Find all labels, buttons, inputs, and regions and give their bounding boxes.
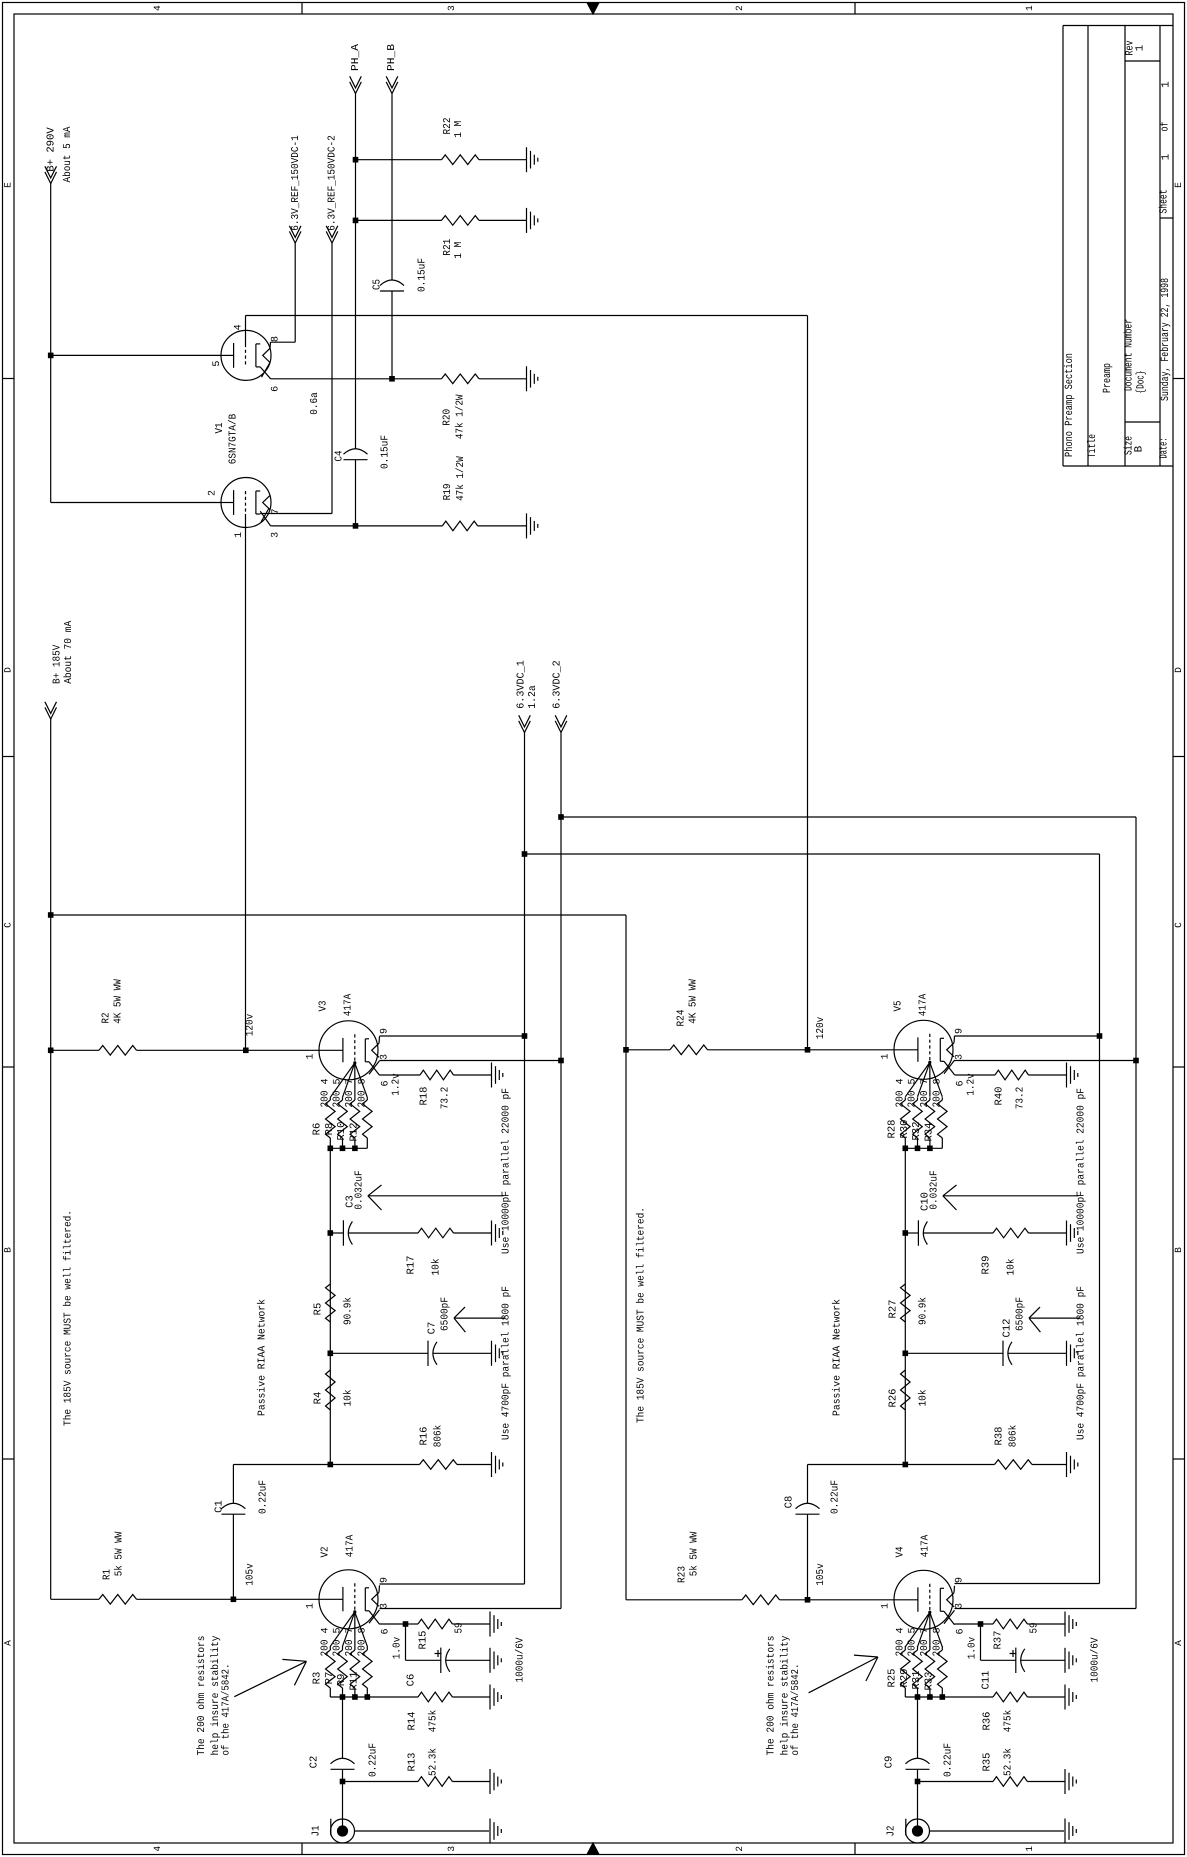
svg-text:R12: R12 <box>349 1123 361 1142</box>
svg-text:C7: C7 <box>427 1322 439 1335</box>
svg-text:R36: R36 <box>982 1712 994 1731</box>
svg-text:B: B <box>1173 1247 1184 1253</box>
svg-text:417A: 417A <box>343 993 355 1016</box>
svg-text:200: 200 <box>907 1640 919 1657</box>
svg-text:5: 5 <box>212 361 223 367</box>
svg-text:9: 9 <box>955 1577 966 1583</box>
svg-text:V2: V2 <box>320 1547 332 1558</box>
svg-text:200: 200 <box>332 1091 344 1108</box>
svg-text:3: 3 <box>271 532 282 538</box>
svg-text:About 70 mA: About 70 mA <box>63 620 75 684</box>
svg-text:1000u/6V: 1000u/6V <box>515 1637 527 1683</box>
svg-text:R26: R26 <box>888 1389 900 1408</box>
svg-text:C4: C4 <box>334 451 346 462</box>
svg-text:3: 3 <box>955 1054 966 1060</box>
svg-text:C12: C12 <box>1002 1319 1014 1338</box>
svg-text:Date:: Date: <box>1159 438 1171 459</box>
svg-text:200: 200 <box>894 1091 906 1108</box>
svg-text:9: 9 <box>380 1028 391 1034</box>
svg-text:1.0v: 1.0v <box>392 1637 404 1660</box>
svg-text:0.032uF: 0.032uF <box>929 1170 941 1209</box>
svg-text:R2: R2 <box>101 1013 113 1024</box>
svg-text:R40: R40 <box>994 1087 1006 1106</box>
svg-text:B+ 185V: B+ 185V <box>52 644 64 684</box>
svg-text:1000u/6V: 1000u/6V <box>1090 1637 1102 1683</box>
svg-text:6: 6 <box>381 1628 392 1634</box>
svg-text:C9: C9 <box>884 1756 896 1769</box>
svg-text:52.3k: 52.3k <box>1003 1748 1015 1776</box>
svg-text:4: 4 <box>895 1078 906 1084</box>
svg-text:4K 5W WW: 4K 5W WW <box>688 979 700 1024</box>
svg-text:6.3VDC_1: 6.3VDC_1 <box>516 660 528 709</box>
svg-text:8: 8 <box>932 1078 943 1084</box>
svg-text:R14: R14 <box>407 1712 419 1731</box>
svg-text:R10: R10 <box>336 1122 348 1141</box>
svg-text:200: 200 <box>894 1640 906 1657</box>
svg-text:7: 7 <box>920 1627 931 1633</box>
svg-text:0.15uF: 0.15uF <box>417 258 429 292</box>
svg-text:1.0v: 1.0v <box>967 1637 979 1660</box>
svg-text:R20: R20 <box>442 409 454 426</box>
svg-text:105v: 105v <box>245 1563 257 1586</box>
svg-text:200: 200 <box>907 1091 919 1108</box>
svg-text:of: of <box>1160 122 1172 132</box>
svg-text:B+ 290V: B+ 290V <box>45 127 57 172</box>
svg-text:C: C <box>2 922 13 928</box>
svg-text:5k 5W WW: 5k 5W WW <box>114 1531 126 1576</box>
svg-text:10k: 10k <box>343 1390 355 1407</box>
svg-text:4: 4 <box>152 1846 163 1852</box>
svg-text:PH_B: PH_B <box>386 44 398 71</box>
svg-text:8: 8 <box>932 1627 943 1633</box>
svg-text:1 M: 1 M <box>453 242 465 259</box>
svg-text:J2: J2 <box>885 1826 897 1837</box>
svg-text:A: A <box>1173 1640 1184 1646</box>
svg-text:200: 200 <box>319 1640 331 1657</box>
svg-text:3: 3 <box>380 1054 391 1060</box>
svg-text:B: B <box>1134 445 1146 452</box>
svg-text:B: B <box>2 1247 13 1253</box>
svg-text:C: C <box>1173 922 1184 928</box>
svg-text:10k: 10k <box>918 1390 930 1407</box>
svg-text:4: 4 <box>233 324 244 330</box>
svg-text:1: 1 <box>305 1603 316 1609</box>
svg-text:R30: R30 <box>899 1120 911 1139</box>
svg-text:R35: R35 <box>982 1753 994 1772</box>
svg-text:47k 1/2W: 47k 1/2W <box>455 394 467 439</box>
svg-text:C5: C5 <box>372 279 384 290</box>
svg-text:200: 200 <box>919 1640 931 1657</box>
svg-text:1.2v: 1.2v <box>966 1073 978 1096</box>
svg-text:0.6a: 0.6a <box>309 392 321 415</box>
svg-text:8: 8 <box>271 336 282 342</box>
svg-text:8: 8 <box>357 1078 368 1084</box>
svg-text:6: 6 <box>956 1628 967 1634</box>
svg-text:200: 200 <box>931 1640 943 1657</box>
svg-text:J1: J1 <box>310 1826 322 1837</box>
svg-text:C8: C8 <box>784 1496 796 1509</box>
svg-text:200: 200 <box>356 1091 368 1108</box>
svg-text:PH_A: PH_A <box>350 43 362 71</box>
svg-text:0.22uF: 0.22uF <box>368 1743 380 1777</box>
svg-text:R29: R29 <box>899 1669 911 1688</box>
svg-text:The 185V source MUST be well f: The 185V source MUST be well filtered. <box>62 1210 74 1426</box>
svg-text:0.22uF: 0.22uF <box>830 1480 842 1514</box>
svg-text:About 5 mA: About 5 mA <box>62 126 74 183</box>
svg-text:120v: 120v <box>245 1014 257 1037</box>
svg-text:V1: V1 <box>214 423 226 434</box>
svg-text:R5: R5 <box>313 1303 325 1316</box>
svg-text:R33: R33 <box>924 1672 936 1691</box>
svg-text:200: 200 <box>356 1640 368 1657</box>
svg-text:806k: 806k <box>433 1425 445 1448</box>
svg-text:4: 4 <box>320 1078 331 1084</box>
svg-text:6500pF: 6500pF <box>1015 1297 1027 1331</box>
svg-text:3: 3 <box>446 5 457 11</box>
svg-text:0.032uF: 0.032uF <box>354 1170 366 1209</box>
svg-text:C2: C2 <box>309 1756 321 1769</box>
svg-text:R34: R34 <box>924 1123 936 1142</box>
svg-text:90.9k: 90.9k <box>343 1297 355 1325</box>
svg-text:Sheet: Sheet <box>1159 190 1171 214</box>
svg-text:R28: R28 <box>887 1120 899 1139</box>
svg-text:9: 9 <box>955 1028 966 1034</box>
svg-text:200: 200 <box>319 1091 331 1108</box>
svg-text:D: D <box>2 667 13 673</box>
svg-text:1.2a: 1.2a <box>527 685 539 709</box>
svg-text:{Doc}: {Doc} <box>1136 371 1148 394</box>
svg-text:R38: R38 <box>994 1427 1006 1446</box>
svg-text:6.3VDC_2: 6.3VDC_2 <box>552 660 564 709</box>
svg-text:Use 10000pF parallel 22000 pF: Use 10000pF parallel 22000 pF <box>501 1088 513 1254</box>
svg-text:1: 1 <box>1024 1846 1035 1852</box>
svg-text:200: 200 <box>919 1091 931 1108</box>
svg-text:1: 1 <box>880 1053 891 1059</box>
svg-text:0.15uF: 0.15uF <box>380 435 392 469</box>
svg-text:R25: R25 <box>887 1669 899 1688</box>
svg-text:90.9k: 90.9k <box>918 1297 930 1325</box>
svg-text:0.22uF: 0.22uF <box>943 1743 955 1777</box>
svg-text:475k: 475k <box>1003 1710 1015 1733</box>
svg-text:5: 5 <box>908 1078 919 1084</box>
svg-text:6.3V_REF_150VDC-1: 6.3V_REF_150VDC-1 <box>290 135 302 231</box>
svg-text:The 200 ohm resistors: The 200 ohm resistors <box>196 1636 208 1756</box>
svg-text:4: 4 <box>152 5 163 11</box>
svg-text:4: 4 <box>895 1627 906 1633</box>
svg-text:6SN7GTA/B: 6SN7GTA/B <box>228 414 240 465</box>
svg-text:59: 59 <box>454 1623 466 1634</box>
svg-text:Use 10000pF parallel 22000 pF: Use 10000pF parallel 22000 pF <box>1076 1088 1088 1254</box>
svg-text:4: 4 <box>320 1627 331 1633</box>
svg-text:1 M: 1 M <box>453 121 465 138</box>
svg-text:R18: R18 <box>419 1087 431 1106</box>
svg-text:5k 5W WW: 5k 5W WW <box>689 1531 701 1576</box>
svg-text:10k: 10k <box>431 1259 443 1276</box>
svg-text:Use 4700pF parallel 1800 pF: Use 4700pF parallel 1800 pF <box>1076 1286 1088 1440</box>
svg-text:200: 200 <box>344 1640 356 1657</box>
svg-text:E: E <box>2 182 13 188</box>
svg-text:475k: 475k <box>428 1710 440 1733</box>
svg-text:417A: 417A <box>918 993 930 1016</box>
svg-text:C6: C6 <box>406 1674 418 1687</box>
svg-text:6.3V_REF_150VDC-2: 6.3V_REF_150VDC-2 <box>327 135 339 231</box>
svg-text:of the 417A/5842.: of the 417A/5842. <box>790 1664 802 1756</box>
svg-text:V5: V5 <box>893 1001 905 1012</box>
svg-text:120v: 120v <box>815 1017 827 1040</box>
svg-text:R8: R8 <box>324 1123 336 1136</box>
svg-text:R4: R4 <box>313 1392 325 1405</box>
svg-text:3: 3 <box>446 1846 457 1852</box>
svg-text:R7: R7 <box>324 1672 336 1685</box>
svg-text:R24: R24 <box>676 1010 688 1027</box>
svg-text:The 200 ohm resistors: The 200 ohm resistors <box>766 1636 778 1756</box>
svg-text:2: 2 <box>734 1846 745 1852</box>
svg-text:Use 4700pF parallel 1800 pF: Use 4700pF parallel 1800 pF <box>501 1286 513 1440</box>
svg-text:5: 5 <box>333 1078 344 1084</box>
svg-text:417A: 417A <box>345 1534 357 1557</box>
svg-text:R15: R15 <box>418 1631 430 1650</box>
svg-text:6500pF: 6500pF <box>440 1297 452 1331</box>
svg-text:806k: 806k <box>1008 1425 1020 1448</box>
svg-text:5: 5 <box>333 1627 344 1633</box>
svg-text:R9: R9 <box>336 1674 348 1687</box>
svg-text:1: 1 <box>1161 81 1173 88</box>
svg-text:The 185V source MUST be well f: The 185V source MUST be well filtered. <box>636 1207 648 1423</box>
svg-text:R17: R17 <box>406 1256 418 1275</box>
svg-text:Preamp: Preamp <box>1102 363 1114 393</box>
svg-text:Document Number: Document Number <box>1124 319 1136 391</box>
svg-text:R39: R39 <box>981 1256 993 1275</box>
svg-text:200: 200 <box>332 1640 344 1657</box>
svg-text:7: 7 <box>345 1078 356 1084</box>
svg-text:417A: 417A <box>920 1534 932 1557</box>
svg-text:2: 2 <box>734 5 745 11</box>
svg-text:9: 9 <box>380 1577 391 1583</box>
svg-text:52.3k: 52.3k <box>428 1748 440 1776</box>
svg-text:R27: R27 <box>888 1300 900 1319</box>
svg-text:5: 5 <box>908 1627 919 1633</box>
svg-text:200: 200 <box>344 1091 356 1108</box>
svg-text:7: 7 <box>345 1627 356 1633</box>
svg-text:Phono Preamp Section: Phono Preamp Section <box>1064 353 1076 457</box>
svg-text:1: 1 <box>1024 5 1035 11</box>
svg-text:R3: R3 <box>312 1672 324 1685</box>
svg-text:1: 1 <box>880 1603 891 1609</box>
svg-text:V3: V3 <box>318 1001 330 1012</box>
svg-text:R19: R19 <box>442 483 454 500</box>
svg-text:59: 59 <box>1029 1623 1041 1634</box>
svg-text:7: 7 <box>920 1078 931 1084</box>
svg-text:R1: R1 <box>102 1569 114 1580</box>
svg-text:Title: Title <box>1087 434 1099 458</box>
svg-text:R16: R16 <box>419 1427 431 1446</box>
svg-text:D: D <box>1173 667 1184 673</box>
svg-text:of the 417A/5842.: of the 417A/5842. <box>220 1664 232 1756</box>
svg-text:Sunday, February 22, 1998: Sunday, February 22, 1998 <box>1160 278 1172 401</box>
svg-text:1: 1 <box>1135 44 1147 51</box>
svg-text:V4: V4 <box>895 1547 907 1558</box>
svg-text:6: 6 <box>271 386 282 392</box>
svg-text:1: 1 <box>1161 153 1173 160</box>
svg-text:2: 2 <box>208 490 219 496</box>
svg-text:A: A <box>2 1640 13 1646</box>
svg-text:1.2v: 1.2v <box>391 1073 403 1096</box>
svg-text:E: E <box>1173 182 1184 188</box>
svg-text:R31: R31 <box>911 1671 923 1690</box>
svg-text:R37: R37 <box>993 1631 1005 1650</box>
svg-text:105v: 105v <box>815 1563 827 1586</box>
svg-text:73.2: 73.2 <box>1015 1087 1027 1110</box>
svg-text:R13: R13 <box>407 1753 419 1772</box>
svg-text:8: 8 <box>357 1627 368 1633</box>
svg-text:Passive RIAA Network: Passive RIAA Network <box>257 1299 269 1416</box>
svg-text:R11: R11 <box>349 1672 361 1691</box>
svg-text:0.22uF: 0.22uF <box>258 1480 270 1514</box>
svg-text:1: 1 <box>305 1053 316 1059</box>
svg-text:200: 200 <box>931 1091 943 1108</box>
svg-text:47k 1/2W: 47k 1/2W <box>455 456 467 501</box>
svg-text:73.2: 73.2 <box>440 1087 452 1110</box>
svg-text:Passive RIAA Network: Passive RIAA Network <box>832 1299 844 1416</box>
svg-text:1: 1 <box>234 532 245 538</box>
svg-text:R32: R32 <box>911 1122 923 1141</box>
svg-text:4K 5W WW: 4K 5W WW <box>113 979 125 1024</box>
svg-text:C1: C1 <box>214 1500 226 1513</box>
svg-text:R6: R6 <box>312 1123 324 1136</box>
svg-text:C11: C11 <box>981 1671 993 1690</box>
svg-text:R23: R23 <box>677 1566 689 1583</box>
svg-text:10k: 10k <box>1006 1259 1018 1276</box>
